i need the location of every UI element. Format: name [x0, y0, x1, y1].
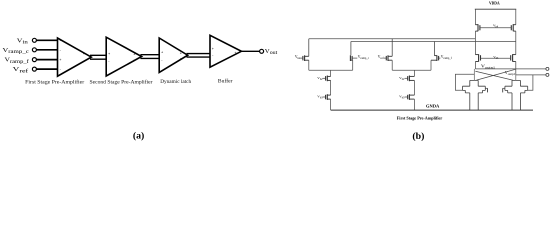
wire Q2 gate feedback box [528, 75, 533, 90]
transistor MB1 Vb2 cascode pair1 [323, 76, 331, 96]
node Voutp label [505, 71, 517, 76]
svg-text:(b): (b) [412, 131, 424, 142]
caption (b) [412, 131, 424, 142]
transistor M4 input NMOS Vramp_f [431, 42, 440, 71]
terminal Voutp [546, 73, 549, 76]
wire VDDA rail [475, 8, 516, 10]
wire tail node pair1 [309, 69, 353, 71]
transistor M3 input NMOS Vref [384, 39, 392, 70]
transistor MB4 Vb3 cascode pair2 [405, 94, 415, 110]
op-amp U1 First Stage Pre-Amplifier [58, 38, 92, 76]
transistor MP4 lower-right PMOS [511, 42, 516, 75]
node Vramp_c label (b) [358, 55, 370, 60]
wire cascode mid node [351, 41, 516, 43]
terminal Vramp_f [32, 58, 36, 62]
svg-text:Second Stage Pre-Amplifier: Second Stage Pre-Amplifier [90, 79, 153, 86]
node Vout label [265, 49, 278, 56]
transistor M2 input NMOS Vramp_c [350, 42, 357, 71]
ground GNDA label [426, 104, 440, 109]
transistor Q1 cross-coupled left [463, 69, 488, 110]
terminal Vref [32, 67, 36, 71]
node Vb3 label pair1 [317, 95, 323, 100]
wire cross-couple Voutp to Q1 gate [477, 69, 516, 80]
svg-text:Vramp_c: Vramp_c [358, 55, 370, 60]
node Vb3 label pair2 [399, 95, 405, 100]
op-amp U2 Second Stage Pre-Amplifier [106, 37, 141, 76]
transistor MP3 lower-left PMOS [475, 42, 480, 69]
wire Vref to U1 [36, 68, 57, 70]
label First Stage Pre-Amplifier [25, 78, 232, 86]
wire Vramp_c to U1 [36, 49, 57, 51]
wire Voutp net [516, 74, 546, 76]
node Vb4 label [493, 24, 499, 29]
node Vb2 label pair2 [399, 76, 405, 81]
svg-text:VDDA: VDDA [489, 2, 500, 6]
node Vref label [13, 67, 29, 74]
svg-text:First Stage Pre-Amplifier: First Stage Pre-Amplifier [397, 115, 443, 120]
node Vin label (b) [295, 55, 300, 60]
transistor MP2 upper-right PMOS [511, 9, 516, 41]
wire cross-couple Voutn to Q2 gate [475, 71, 513, 80]
transistor MP1 upper-left PMOS [475, 9, 480, 41]
wire Vin to U1 [36, 39, 57, 41]
wire M1 drain net [309, 38, 476, 40]
node Voutn label [481, 64, 496, 69]
node Vramp_c label [3, 48, 30, 55]
node Vb5 label [493, 55, 499, 60]
wire Voutn net [475, 68, 545, 70]
wire U2 to U3 differential pair [140, 54, 159, 56]
terminal Vramp_c [32, 48, 36, 52]
node Vref label (b) [378, 55, 384, 60]
transistor MB2 Vb3 cascode pair1 [323, 94, 331, 110]
caption (a) [133, 130, 144, 141]
wire Vramp_f to U1 [36, 59, 57, 61]
node Vramp_f label (b) [441, 55, 452, 60]
ground GNDA rail [331, 109, 533, 111]
wire Q1 gate feedback box [455, 74, 474, 90]
terminal Voutn [546, 67, 549, 70]
node Vb2 label pair1 [317, 76, 323, 81]
terminal Vout [260, 49, 264, 53]
transistor MB3 Vb2 cascode pair2 [405, 76, 415, 96]
wire U1 to U2 differential pair [90, 54, 106, 56]
label First Stage Pre-Amplifier (b) [397, 115, 443, 120]
svg-text:Buffer: Buffer [218, 78, 233, 85]
power VDDA label [489, 2, 500, 6]
wire U3 to U4 differential pair [187, 53, 211, 55]
terminal Vin [32, 38, 36, 42]
wire tail node pair2 [392, 69, 431, 71]
svg-text:GNDA: GNDA [426, 104, 440, 109]
wire Vb4 gate net [480, 27, 511, 29]
node Vramp_f label [5, 58, 30, 65]
op-amp U4 Buffer [210, 35, 241, 67]
transistor M1 input NMOS Vin [299, 39, 308, 70]
wire Vb5 gate net [481, 57, 511, 59]
svg-text:Dynamic latch: Dynamic latch [160, 79, 191, 85]
svg-text:(a): (a) [133, 130, 144, 141]
node Vin label [17, 38, 29, 45]
transistor Q2 cross-coupled right [503, 75, 528, 110]
svg-text:First Stage Pre-Amplifier: First Stage Pre-Amplifier [25, 79, 84, 86]
op-amp U3 Dynamic latch [159, 38, 188, 72]
wire U4 output [241, 50, 259, 52]
